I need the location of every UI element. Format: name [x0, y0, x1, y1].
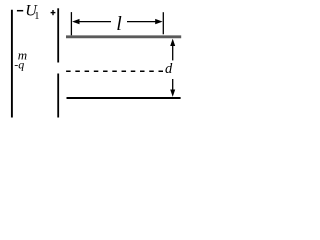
label + vertical stroke — [52, 10, 54, 15]
right accelerating plate (positive), upper segment — [57, 8, 59, 62]
label -U1 minus stroke — [17, 10, 23, 12]
left accelerating plate (negative) — [11, 10, 13, 118]
dimension l : arrow line right segment — [127, 21, 161, 23]
dimension l : arrow line left segment — [74, 21, 111, 23]
dimension d : upper arrowhead (points up) — [170, 39, 175, 46]
svg-text:d: d — [165, 61, 173, 77]
dashed center line — [66, 70, 163, 72]
dimension d : upper arrow line — [172, 43, 174, 60]
svg-text:1: 1 — [34, 11, 39, 22]
dimension l : right tick — [162, 12, 164, 34]
dimension l : left arrowhead — [72, 19, 79, 24]
right accelerating plate (positive), lower segment — [57, 74, 59, 118]
dimension l : left tick — [70, 12, 72, 35]
top deflecting plate (gray) — [66, 35, 181, 38]
dimension l : right arrowhead — [155, 19, 162, 24]
bottom deflecting plate — [67, 97, 181, 99]
label + horizontal stroke — [51, 12, 56, 14]
svg-text:l: l — [116, 13, 122, 35]
dimension d : lower arrowhead (points down) — [170, 90, 175, 97]
svg-text:-q: -q — [14, 57, 24, 71]
dimension d : lower arrow line — [172, 79, 174, 93]
